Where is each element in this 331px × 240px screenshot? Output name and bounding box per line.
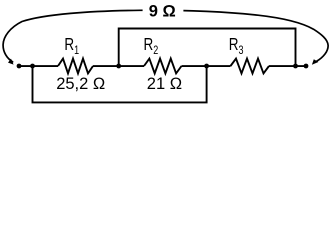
equivalent-resistance arc (9 Ohm measurement arrow): [3, 10, 328, 62]
arrowhead right: [312, 59, 319, 65]
wire bottom loop shorting R1+R2: [33, 66, 207, 102]
resistor R2: [144, 59, 182, 74]
wire main right segment: [269, 65, 306, 67]
svg-text:21 Ω: 21 Ω: [147, 75, 182, 93]
svg-text:9 Ω: 9 Ω: [149, 3, 176, 21]
node right terminal: [304, 64, 309, 69]
resistor R1: [58, 59, 93, 74]
node junction J4 (bypass right): [293, 64, 298, 69]
node junction J3 (bottom loop right): [204, 64, 209, 69]
wire bypass box over R2 and R3: [119, 29, 296, 67]
svg-text:25,2 Ω: 25,2 Ω: [56, 75, 105, 93]
arrowhead left: [8, 59, 14, 65]
resistor R3: [231, 59, 270, 74]
wire main between R2 and R3: [182, 65, 231, 67]
wire main left segment: [19, 65, 58, 67]
node junction J2 (bypass left): [116, 64, 121, 69]
node junction J1 (bottom loop left): [30, 64, 35, 69]
wire main between R1 and R2: [93, 65, 144, 67]
label 9 Ohm: [143, 1, 184, 21]
node left terminal: [17, 64, 22, 69]
